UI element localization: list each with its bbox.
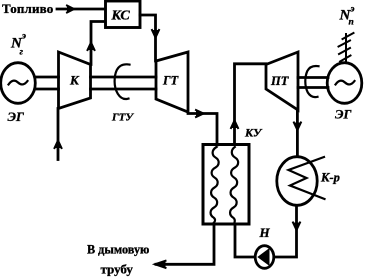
wire PT exhaust to condenser <box>296 109 299 156</box>
condenser K-r <box>277 157 317 206</box>
svg-text:э: э <box>350 5 355 15</box>
wire feedwater pump to KU <box>235 225 255 258</box>
coupling symbol GTU <box>115 64 130 99</box>
wire shaft generator to compressor <box>36 77 59 89</box>
wire hot gas KC to GT <box>140 15 156 61</box>
compressor K <box>59 52 91 109</box>
svg-text:К-р: К-р <box>320 171 340 185</box>
svg-text:ЭГ: ЭГ <box>335 107 351 122</box>
arrow air up <box>88 43 95 51</box>
svg-text:ЭГ: ЭГ <box>8 109 24 124</box>
water wave coil inside KU <box>230 147 238 223</box>
wire shaft compressor to gas turbine <box>91 77 157 89</box>
arrow gas down <box>152 30 159 38</box>
arrow condensate down <box>293 223 300 231</box>
wire fuel line into KC <box>57 8 105 11</box>
cooling water zigzag <box>289 157 325 199</box>
arrow down to condenser <box>294 123 301 131</box>
pump N circle <box>255 246 274 269</box>
wire shaft PT to generator <box>298 78 328 88</box>
arrow to stack left <box>155 261 166 268</box>
wire GT exhaust to KU <box>188 114 217 146</box>
wire condensate down <box>274 206 297 258</box>
coupling symbol right <box>305 66 318 97</box>
wire air line compressor to KC <box>91 22 105 65</box>
svg-text:ГТУ: ГТУ <box>111 112 134 124</box>
gas wave coil inside KU <box>211 147 219 223</box>
label N_g^e left <box>10 32 26 58</box>
svg-text:КУ: КУ <box>244 126 263 140</box>
arrow air inlet up <box>55 141 62 149</box>
svg-text:п: п <box>349 18 354 28</box>
svg-text:Н: Н <box>259 225 271 240</box>
steam turbine PT <box>266 52 298 110</box>
label N_p^e right <box>339 5 355 28</box>
wire air inlet bottom <box>57 109 60 160</box>
label to stack <box>87 243 149 277</box>
arrow fuel right <box>66 6 74 13</box>
generator EG left circle <box>1 63 36 104</box>
generator EG right circle <box>327 63 362 104</box>
sine symbol right <box>336 81 355 85</box>
sine symbol left <box>9 81 28 85</box>
grid connection zigzag <box>345 34 347 63</box>
arrow steam up <box>231 121 238 129</box>
svg-text:К: К <box>69 73 80 88</box>
svg-text:ГТ: ГТ <box>162 74 180 88</box>
svg-text:э: э <box>21 32 26 42</box>
svg-text:КС: КС <box>111 9 131 24</box>
boiler KU box <box>203 145 249 225</box>
svg-text:трубу: трубу <box>101 262 134 277</box>
svg-text:г: г <box>20 48 24 58</box>
svg-text:ПТ: ПТ <box>270 74 290 88</box>
pump triangle <box>259 250 269 264</box>
wire steam KU to PT <box>235 64 267 145</box>
svg-text:В дымовую: В дымовую <box>87 243 149 257</box>
svg-text:Топливо: Топливо <box>2 1 53 16</box>
arrow exhaust right <box>196 110 204 117</box>
gas turbine GT <box>156 52 188 112</box>
wire flue gas to stack <box>156 225 214 265</box>
combustion chamber KC box <box>106 1 141 28</box>
